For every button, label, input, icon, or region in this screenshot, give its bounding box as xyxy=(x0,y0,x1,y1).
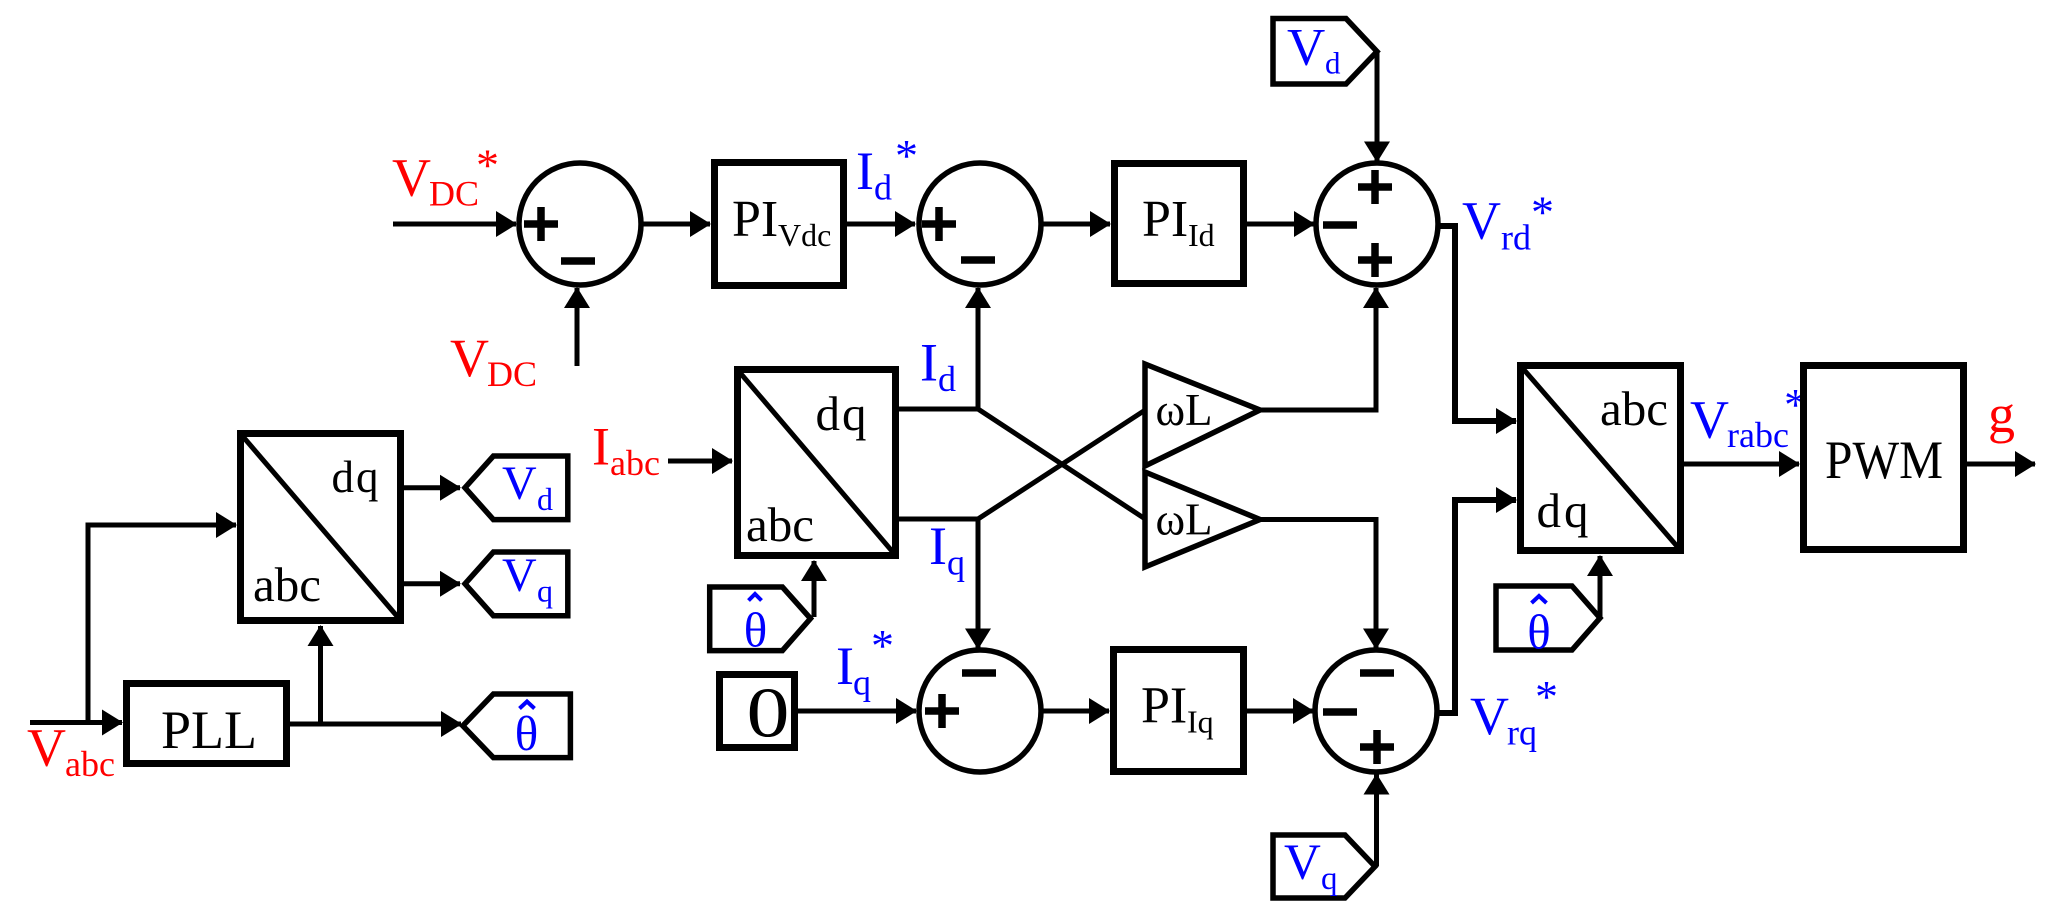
wire Id output xyxy=(899,407,978,412)
wire zero to S4 xyxy=(795,709,916,714)
svg-text:abc: abc xyxy=(746,497,814,552)
flag Vq left xyxy=(465,549,568,616)
flag theta center xyxy=(710,587,811,658)
summing junction S4 xyxy=(919,650,1041,772)
flag Vd top xyxy=(1273,19,1377,85)
block zero xyxy=(720,675,795,753)
block PIId xyxy=(1115,164,1244,284)
wire right transform to PWM xyxy=(1684,462,1799,467)
wire left transform to Vd flag xyxy=(404,485,460,490)
wire Vabc branch up to left transform xyxy=(88,525,236,723)
flag Vq bottom xyxy=(1273,835,1375,898)
summing junction S2 xyxy=(919,163,1041,285)
wire PLL branch up into left transform xyxy=(318,626,323,724)
svg-text:dq: dq xyxy=(1537,483,1592,538)
transform block right dq-abc xyxy=(1519,364,1682,552)
svg-text:0: 0 xyxy=(747,675,790,753)
block PWM xyxy=(1804,366,1964,550)
wire PWM output xyxy=(1967,462,2035,467)
wire Vq flag up to S5 xyxy=(1374,775,1379,867)
wire S4 to PIIq xyxy=(1042,709,1110,714)
wire Iq diagonal to upper gain xyxy=(978,410,1146,520)
block PLL xyxy=(127,684,287,764)
wire Iq output xyxy=(899,517,978,522)
svg-text:ωL: ωL xyxy=(1155,495,1212,545)
wire Iabc into center transform xyxy=(668,459,732,464)
wire S1 to PIVdc xyxy=(642,222,710,227)
wire Vd flag down to S3 xyxy=(1375,52,1380,162)
wire left transform to Vq flag xyxy=(404,581,460,586)
wire Vdc* input xyxy=(393,222,516,227)
svg-text:dq: dq xyxy=(816,386,869,441)
svg-text:θ: θ xyxy=(744,603,767,658)
svg-text:g: g xyxy=(1988,384,2015,444)
transform block center abc-dq xyxy=(736,368,897,557)
svg-text:dq: dq xyxy=(332,452,381,502)
svg-text:abc: abc xyxy=(253,557,321,612)
flag Vd left xyxy=(465,456,568,520)
summing junction S3 xyxy=(1316,163,1438,285)
wire theta center up into block xyxy=(812,561,817,617)
wire PLL output to theta flag xyxy=(290,722,461,727)
gain wL upper xyxy=(1145,364,1260,466)
wire PIId to S3 xyxy=(1247,222,1314,227)
wire S2 to PIId xyxy=(1042,222,1111,227)
summing junction S1 xyxy=(519,163,641,285)
wire Iq down to S4 xyxy=(976,519,981,649)
wire S3 output to right transform block xyxy=(1439,226,1516,421)
wire S5 output to right transform block xyxy=(1437,500,1516,713)
svg-text:PWM: PWM xyxy=(1825,430,1943,490)
svg-text:θ: θ xyxy=(515,706,538,761)
wire Id up to S2 xyxy=(976,288,981,409)
wire upper gain to S3 bottom xyxy=(1260,288,1376,410)
wire VDC feedback up into summing junction S1 xyxy=(575,288,580,366)
wire PIIq to S5 xyxy=(1247,709,1313,714)
summing junction S5 xyxy=(1315,650,1437,772)
svg-text:ωL: ωL xyxy=(1155,385,1212,435)
svg-text:abc: abc xyxy=(1600,381,1668,436)
transform block left abc-dq xyxy=(239,432,402,622)
svg-text:θ: θ xyxy=(1527,605,1550,660)
wire lower gain to S5 top xyxy=(1260,520,1376,649)
block PIIq xyxy=(1114,650,1244,772)
wire Id diagonal to lower gain xyxy=(978,409,1146,520)
flag theta left xyxy=(463,694,571,761)
flag theta right xyxy=(1496,586,1600,660)
wire Vabc into PLL xyxy=(30,720,122,725)
wire PIVdc to S2 xyxy=(847,222,915,227)
svg-text:PLL: PLL xyxy=(161,700,257,760)
gain wL lower xyxy=(1145,472,1260,567)
wire theta right up into block xyxy=(1598,556,1603,617)
block PIVdc xyxy=(715,163,844,286)
